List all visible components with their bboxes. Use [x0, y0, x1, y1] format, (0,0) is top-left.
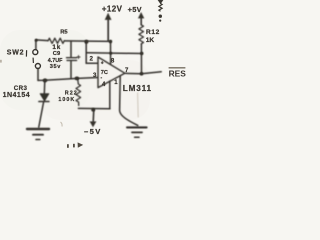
svg-text:R5: R5: [60, 29, 68, 35]
node feedback crossing: [109, 52, 112, 55]
svg-text:LM311: LM311: [123, 84, 152, 93]
node R22 top: [75, 77, 79, 81]
node -5V stub: [91, 108, 95, 112]
wire pin 4 lead: [109, 81, 111, 109]
node SW2 corner: [35, 39, 38, 42]
svg-text:8: 8: [111, 58, 115, 65]
paper background: [0, 0, 194, 150]
node rail corner: [109, 40, 112, 43]
diode CR3 cathode lead: [39, 102, 44, 127]
svg-text:+12V: +12V: [102, 4, 123, 13]
node feedback at R12: [140, 52, 143, 55]
svg-text:+: +: [101, 61, 104, 67]
node output junction: [140, 72, 144, 76]
capacitor C9 lead top: [70, 41, 72, 57]
bottom caption fragment 11>: [67, 142, 83, 147]
svg-text:1N4154: 1N4154: [3, 92, 31, 99]
resistor R5: [48, 38, 64, 43]
capacitor C9 lead bottom: [70, 61, 72, 79]
svg-text:SW2: SW2: [7, 50, 25, 57]
svg-text:C9: C9: [53, 51, 61, 57]
switch lever ticks: [26, 50, 33, 63]
capacitor C9 plus sign: [77, 55, 80, 58]
-5V arrow stub: [92, 110, 95, 123]
svg-text:2: 2: [90, 56, 94, 63]
wire pin 2 stub: [86, 62, 97, 64]
switch SW2 contacts: [26, 50, 40, 69]
+12V arrow shaft: [107, 19, 109, 40]
svg-text:–5V: –5V: [84, 127, 102, 136]
resistor R12: [139, 25, 144, 44]
wire pin 3 input: [38, 78, 98, 81]
svg-text:1k: 1k: [52, 44, 61, 51]
diode CR3 anode lead: [43, 81, 46, 95]
ground (left): [27, 128, 49, 130]
edge fragment (cut-off component top right): [158, 0, 162, 11]
wire top rail: [64, 40, 110, 43]
wire output to RES: [125, 72, 161, 74]
wire SW2 bottom lead: [37, 69, 39, 81]
op-amp U7C triangle: [98, 57, 125, 88]
svg-text:1K: 1K: [146, 37, 155, 44]
resistor R22: [76, 79, 81, 106]
svg-text:R22: R22: [65, 90, 78, 96]
node rail junction: [84, 40, 88, 44]
paper speck: [61, 122, 63, 127]
wire pin 1 lead to ground: [120, 76, 138, 126]
wire pin8 lead down from rail: [110, 41, 112, 64]
wire SW2 top to rail: [36, 40, 48, 49]
diode CR3: [40, 94, 49, 101]
smudge streak: [137, 93, 140, 117]
wire R12 to output node: [140, 44, 142, 74]
+12V arrowhead: [105, 13, 112, 20]
capacitor C9 plates: [67, 58, 77, 61]
wire feedback horizontal to R12 node: [86, 52, 142, 55]
svg-text:+5V: +5V: [128, 5, 142, 14]
wire feedback vertical: [85, 42, 87, 63]
node diode top: [43, 78, 48, 82]
left edge mark: [0, 60, 2, 63]
svg-text:R12: R12: [146, 29, 160, 36]
svg-text:100K: 100K: [58, 97, 75, 103]
+5V arrowhead: [138, 12, 144, 18]
wire bottom (-5V rail): [78, 107, 110, 109]
ground (right): [127, 126, 147, 128]
svg-text:35v: 35v: [50, 64, 61, 70]
svg-text:RES: RES: [169, 69, 187, 79]
+5V arrow shaft: [140, 18, 142, 25]
-5V arrowhead: [90, 121, 97, 127]
net label RES (active low): [169, 68, 187, 79]
